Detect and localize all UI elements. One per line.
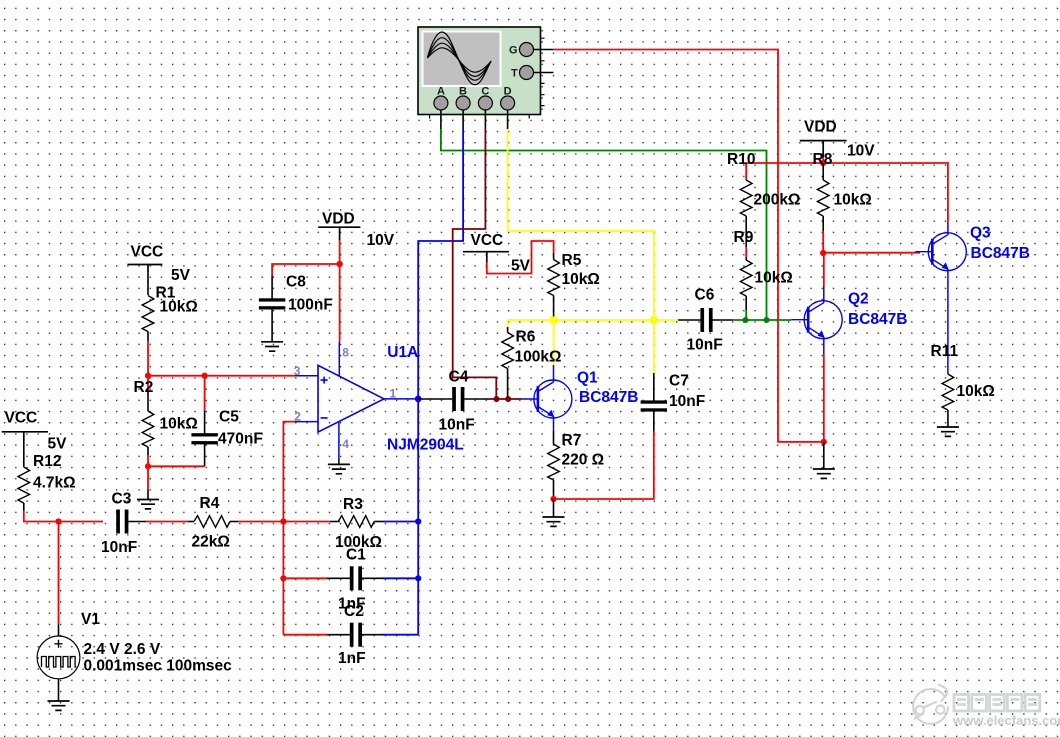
- wire C6 to Q2 base (green): [733, 319, 791, 321]
- capacitor C7: [641, 373, 706, 432]
- svg-text:8: 8: [342, 346, 349, 360]
- wire C3 to R4 (red): [146, 521, 188, 523]
- power VCC (R1 top): [128, 244, 191, 285]
- svg-text:10nF: 10nF: [101, 539, 137, 556]
- svg-text:VDD: VDD: [322, 211, 355, 228]
- scope terminal A: [434, 86, 448, 130]
- junction C1 left: [280, 575, 286, 581]
- wire R3 to output node (blue): [383, 521, 419, 523]
- junction V1/R12/C3: [55, 518, 61, 524]
- svg-text:5V: 5V: [48, 436, 68, 453]
- junction green wire (green): [764, 317, 770, 323]
- svg-text:10kΩ: 10kΩ: [160, 299, 198, 316]
- junction R1/R2: [145, 373, 151, 379]
- wire scope G to Q2 emitter ground net (red): [553, 50, 823, 442]
- svg-text:BC847B: BC847B: [848, 311, 907, 328]
- capacitor C5: [191, 376, 262, 467]
- svg-text:10kΩ: 10kΩ: [562, 271, 600, 288]
- wire R12 to main node (red): [24, 511, 103, 522]
- svg-text:VCC: VCC: [5, 410, 38, 427]
- svg-text:100kΩ: 100kΩ: [515, 349, 562, 366]
- ground (Q2): [813, 442, 835, 479]
- scope terminal B: [456, 86, 470, 130]
- scope terminal G: [509, 43, 553, 57]
- resistor R1: [142, 272, 198, 341]
- svg-text:R7: R7: [562, 432, 582, 449]
- svg-text:VDD: VDD: [804, 119, 837, 136]
- wire feedback node up to pin2 (red): [283, 422, 295, 522]
- svg-text:C1: C1: [346, 547, 366, 564]
- wire yellow R6 top stub: [507, 320, 509, 327]
- power VCC (Q1 stage): [463, 232, 531, 275]
- ground (R11): [937, 427, 959, 436]
- wire C2 to output node (blue): [383, 634, 419, 636]
- svg-text:200kΩ: 200kΩ: [754, 192, 801, 209]
- svg-text:T: T: [511, 68, 518, 80]
- svg-text:VCC: VCC: [471, 232, 504, 249]
- wire C1 to output node (blue): [383, 577, 419, 579]
- power VDD (op-amp): [318, 211, 395, 250]
- svg-text:1: 1: [390, 386, 397, 400]
- svg-text:R8: R8: [813, 151, 833, 168]
- scope terminal C: [478, 86, 492, 130]
- wire scope A to Q2 base net (green): [441, 129, 767, 320]
- resistor R2: [134, 379, 198, 455]
- svg-text:R11: R11: [931, 343, 959, 360]
- wire junction to V1 (red): [58, 522, 60, 625]
- svg-text:2: 2: [294, 409, 301, 423]
- junction output/C1: [415, 575, 421, 581]
- resistor R4: [188, 495, 238, 551]
- wire feedback node down (red): [282, 522, 284, 635]
- svg-text:10nF: 10nF: [687, 337, 723, 354]
- svg-text:5V: 5V: [511, 258, 531, 275]
- wire VDD rail (red): [746, 163, 948, 222]
- svg-text:10kΩ: 10kΩ: [160, 416, 198, 433]
- svg-text:C2: C2: [344, 603, 364, 620]
- wire scope B to op-amp output net (blue): [418, 129, 463, 635]
- resistor R5: [548, 252, 600, 320]
- wire scope C to Q1 base net (maroon): [453, 129, 497, 399]
- junction op-amp output: [415, 396, 422, 403]
- svg-text:C7: C7: [669, 373, 689, 390]
- svg-text:R6: R6: [516, 329, 536, 346]
- ground (R7): [543, 499, 565, 526]
- svg-text:R4: R4: [200, 495, 220, 512]
- transistor Q1: [521, 365, 639, 431]
- junction VDD/C8/pin8: [336, 261, 342, 267]
- wire junction to Q2 collector (red): [823, 253, 825, 285]
- capacitor C3: [101, 491, 146, 557]
- svg-text:VCC: VCC: [131, 244, 164, 261]
- svg-text:5V: 5V: [171, 267, 191, 284]
- junction R8/Q2 collector/Q3 base: [820, 250, 826, 256]
- svg-text:R3: R3: [343, 496, 363, 513]
- svg-text:10V: 10V: [367, 232, 395, 249]
- transistor Q3: [915, 222, 1030, 374]
- junction maroon wire / base: [494, 396, 500, 402]
- svg-text:4: 4: [342, 437, 349, 451]
- svg-text:R5: R5: [562, 252, 582, 269]
- ground (op-amp pin4): [328, 464, 350, 473]
- svg-text:10kΩ: 10kΩ: [755, 270, 793, 287]
- svg-text:22kΩ: 22kΩ: [192, 534, 230, 551]
- resistor R10: [727, 151, 800, 247]
- capacitor C2: [327, 603, 383, 667]
- power VCC (lower-left): [2, 410, 67, 453]
- svg-text:0.001msec 100msec: 0.001msec 100msec: [84, 658, 233, 675]
- transistor Q2: [791, 285, 907, 355]
- svg-text:4.7kΩ: 4.7kΩ: [33, 475, 76, 492]
- junction R9 bottom (green): [743, 317, 749, 323]
- svg-text:R9: R9: [734, 229, 754, 246]
- resistor R3: [330, 496, 383, 551]
- power VDD (right): [800, 119, 875, 160]
- junction Q2 emitter/G wire: [821, 439, 827, 445]
- resistor R8: [813, 151, 872, 231]
- wire R4 to feedback junction (red): [238, 521, 329, 523]
- svg-text:Q3: Q3: [970, 225, 991, 242]
- svg-text:www.elecfans.com: www.elecfans.com: [952, 713, 1060, 728]
- resistor R7: [548, 431, 604, 499]
- wire R1 bottom to junction (red): [147, 341, 149, 376]
- scope terminal D: [501, 86, 515, 130]
- oscilloscope XSC1 body: [418, 27, 545, 119]
- wire R8 to junction (red): [822, 231, 824, 253]
- svg-text:BC847B: BC847B: [971, 245, 1030, 262]
- junction R6 / base: [505, 396, 511, 402]
- svg-text:3: 3: [294, 364, 301, 378]
- svg-text:R10: R10: [727, 151, 755, 168]
- wire R2 bottom to ground junction (red): [148, 455, 205, 490]
- wire junction to pin8 (red): [339, 264, 341, 342]
- op-amp U1A: [294, 342, 464, 464]
- wire scope D to Q1 collector net (yellow): [508, 129, 654, 373]
- wire junction down to R2 (red): [147, 376, 149, 392]
- ground (R2/C5): [137, 490, 159, 509]
- svg-text:10V: 10V: [847, 143, 875, 160]
- resistor R6: [502, 327, 562, 399]
- svg-text:R2: R2: [134, 379, 154, 396]
- svg-text:C4: C4: [449, 369, 469, 386]
- wire yellow collector node horizontal R6-C6: [508, 319, 678, 321]
- junction VDD rail: [820, 160, 826, 166]
- svg-text:100nF: 100nF: [288, 297, 333, 314]
- svg-text:C3: C3: [112, 491, 132, 508]
- svg-text:10kΩ: 10kΩ: [834, 192, 872, 209]
- junction R7/C7 bottom: [550, 496, 556, 502]
- wire junction to Q3 base (red): [823, 252, 920, 254]
- wire VDD lead (red): [822, 157, 824, 163]
- capacitor C6: [678, 287, 733, 354]
- svg-text:1nF: 1nF: [338, 650, 366, 667]
- wire VDD to junction (red): [339, 240, 341, 264]
- wire Q2 emitter to ground (red): [823, 355, 825, 442]
- svg-text:U1A: U1A: [387, 344, 418, 361]
- svg-text:G: G: [509, 45, 518, 57]
- wire to C2 (red): [283, 634, 327, 636]
- scope terminal T: [511, 66, 554, 80]
- resistor R11: [931, 343, 995, 427]
- wire VCC to R5 (red): [487, 241, 554, 274]
- svg-text:470nF: 470nF: [218, 430, 263, 447]
- junction C7 top (yellow): [650, 317, 657, 324]
- junction C5 top: [202, 373, 208, 379]
- svg-text:V1: V1: [81, 611, 100, 628]
- junction output/R3: [415, 518, 421, 524]
- resistor R12: [18, 440, 76, 511]
- svg-text:BC847B: BC847B: [579, 389, 638, 406]
- source V1: [37, 611, 232, 701]
- svg-text:Q1: Q1: [577, 370, 598, 387]
- junction R2/C5 ground: [145, 463, 151, 469]
- resistor R9: [734, 229, 793, 320]
- watermark logo: [913, 684, 948, 724]
- ground (C8): [261, 342, 283, 351]
- svg-text:2.4 V 2.6 V: 2.4 V 2.6 V: [84, 641, 161, 658]
- wire to C1 (red): [283, 577, 327, 579]
- svg-text:220 Ω: 220 Ω: [562, 452, 605, 469]
- svg-text:10kΩ: 10kΩ: [957, 383, 995, 400]
- wire yellow R5 bottom to Q1 collector: [553, 320, 555, 365]
- wire junction to C8 (red): [272, 264, 340, 275]
- oscilloscope screen: [422, 31, 502, 88]
- wire R10-R9 (red): [745, 247, 747, 257]
- capacitor C1: [327, 547, 383, 613]
- capacitor C8: [259, 274, 333, 342]
- svg-text:10nF: 10nF: [669, 393, 705, 410]
- ground (V1): [48, 701, 70, 710]
- svg-text:R12: R12: [33, 453, 61, 470]
- svg-text:NJM2904L: NJM2904L: [387, 437, 464, 454]
- svg-text:C6: C6: [695, 287, 715, 304]
- junction feedback node: [280, 518, 286, 524]
- wire junction to op-amp pin3 (red): [148, 375, 295, 377]
- svg-text:C5: C5: [219, 409, 239, 426]
- svg-text:C8: C8: [286, 274, 306, 291]
- capacitor C4: [418, 369, 521, 434]
- wire R7 to C7 bottom (red): [554, 432, 654, 499]
- junction R5/collector (yellow): [550, 317, 557, 324]
- svg-text:10nF: 10nF: [439, 416, 475, 433]
- watermark text: [954, 695, 1040, 712]
- svg-text:Q2: Q2: [848, 291, 869, 308]
